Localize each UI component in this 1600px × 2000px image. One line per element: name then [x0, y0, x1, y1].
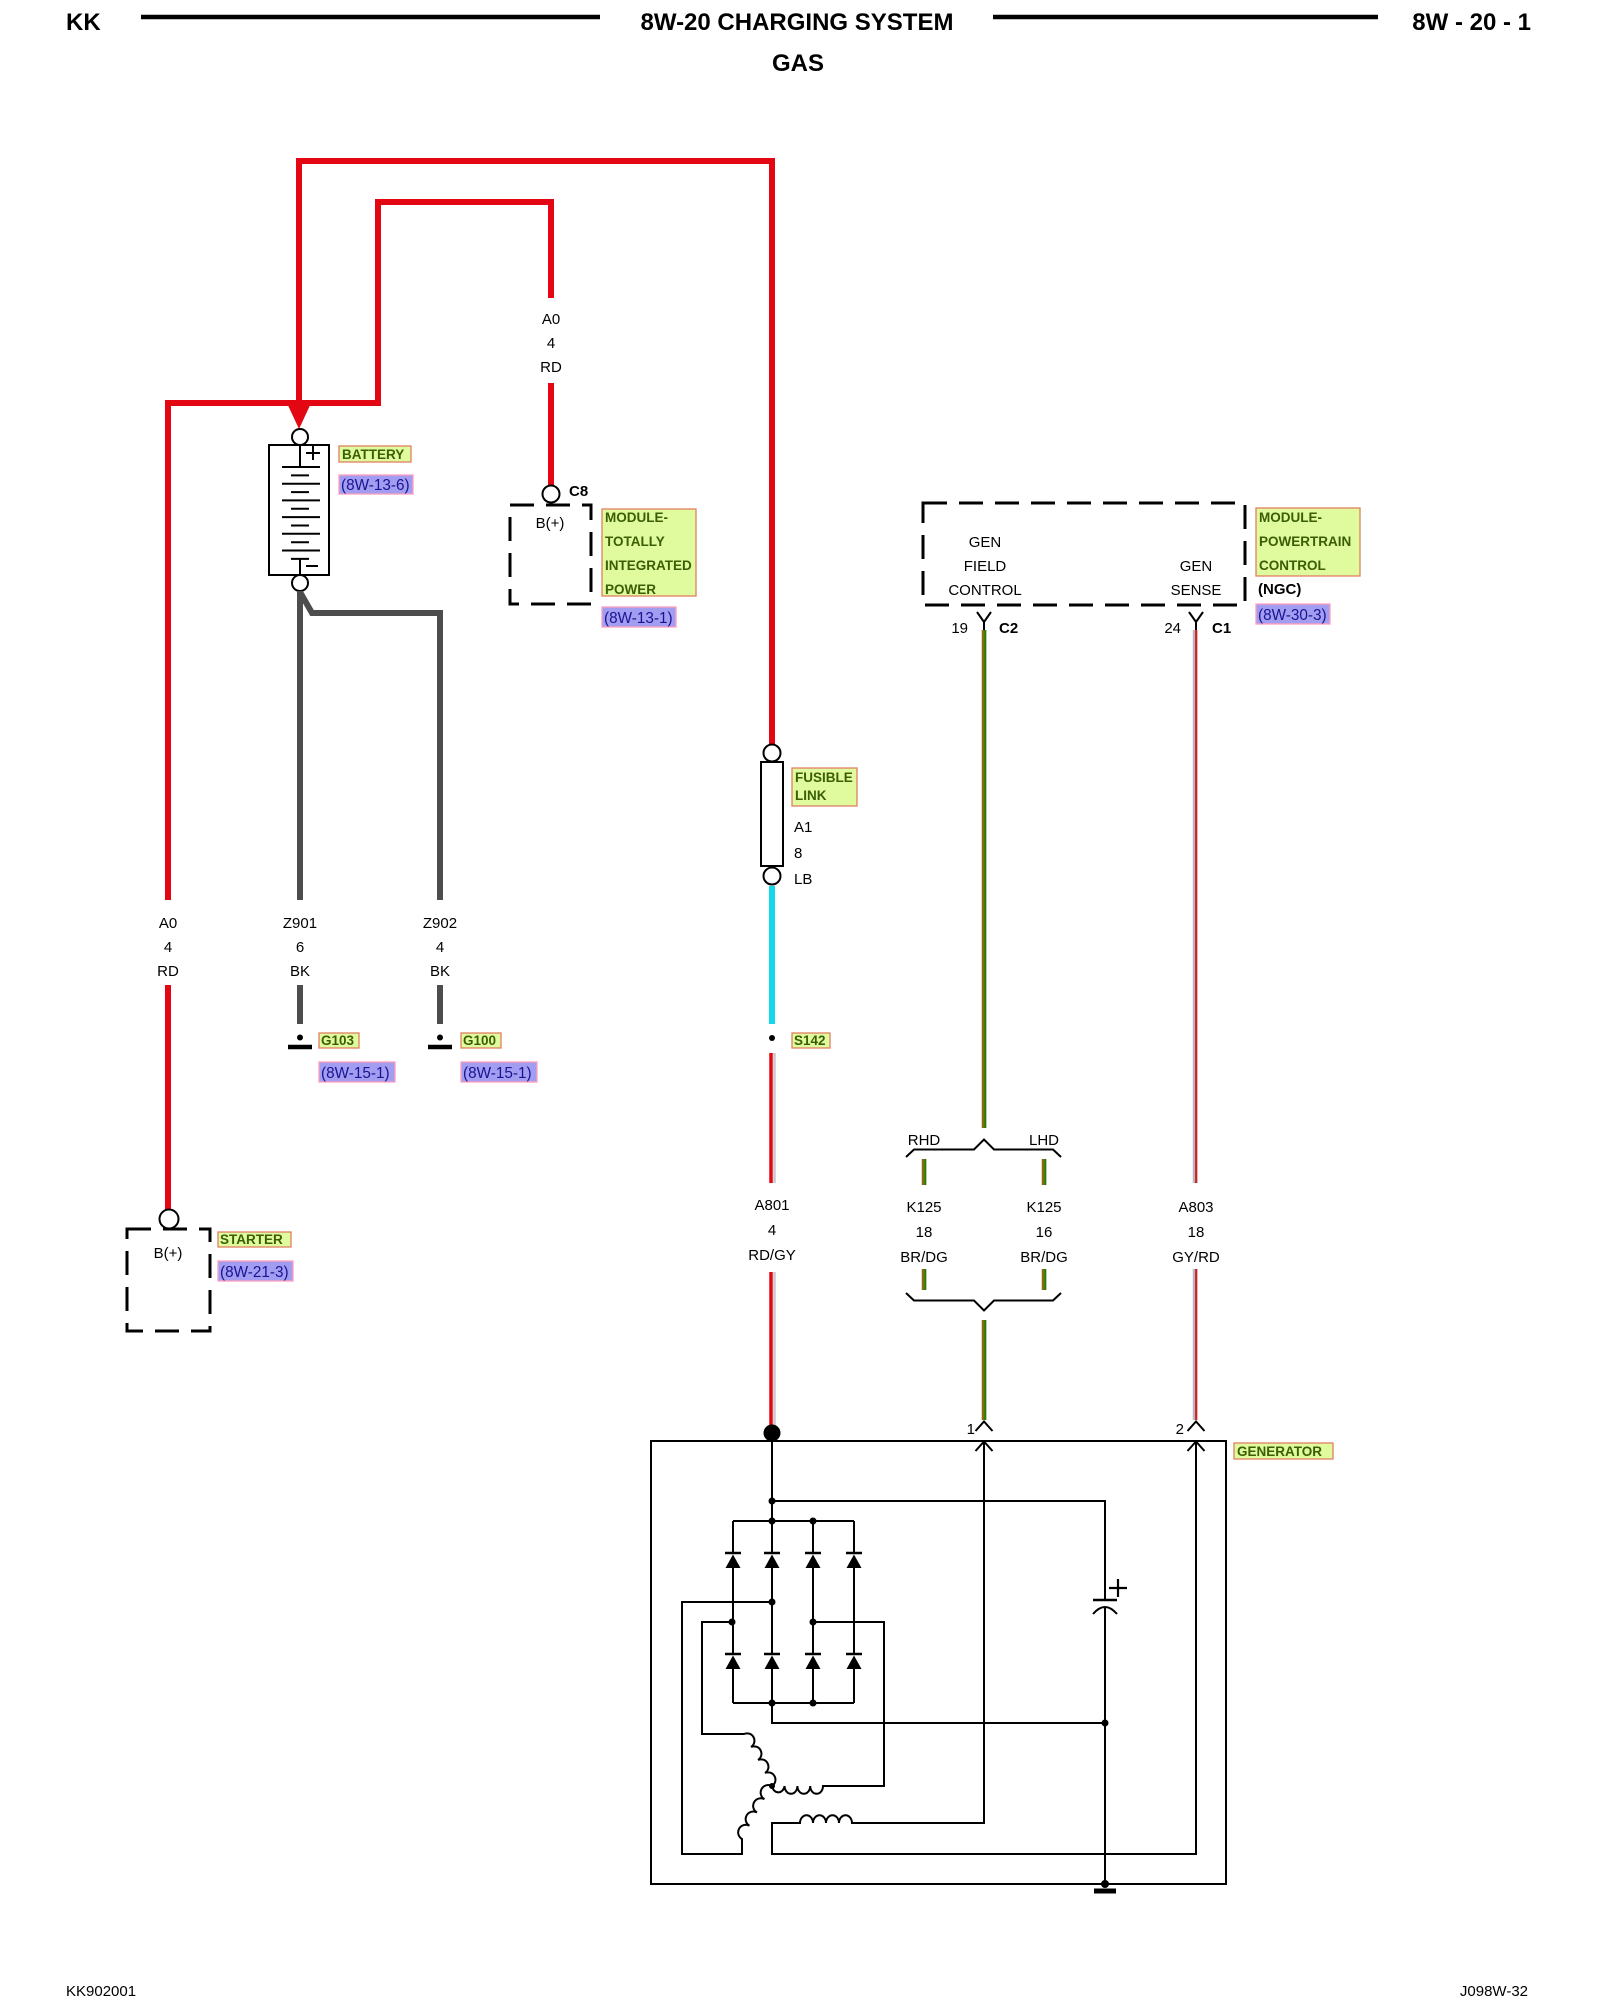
- label (8W-13-1): [602, 607, 676, 627]
- wire B+ vertical into bridge: [771, 1433, 773, 1521]
- svg-text:CONTROL: CONTROL: [948, 582, 1021, 599]
- svg-text:1: 1: [967, 1421, 975, 1438]
- label (8W-15-1) left: [319, 1062, 395, 1082]
- label (8W-30-3): [1256, 604, 1330, 624]
- svg-text:CONTROL: CONTROL: [1259, 558, 1326, 573]
- generator box: [651, 1441, 1226, 1884]
- svg-text:LINK: LINK: [795, 788, 827, 803]
- label MODULE-TOTALLY INTEGRATED POWER: [602, 509, 696, 596]
- node capacitor/rectifier junction: [1102, 1720, 1109, 1727]
- svg-text:4: 4: [164, 939, 172, 956]
- svg-text:(NGC): (NGC): [1258, 581, 1301, 598]
- battery positive terminal circle: [292, 429, 308, 445]
- ground G103 symbol: [297, 1035, 303, 1041]
- starter terminal circle: [160, 1210, 179, 1229]
- arrowhead pin 1 inside box: [976, 1442, 993, 1452]
- svg-text:POWER: POWER: [605, 582, 656, 597]
- svg-text:A0: A0: [159, 915, 177, 932]
- ground G100 symbol: [437, 1035, 443, 1041]
- svg-text:LB: LB: [794, 871, 812, 888]
- svg-text:C1: C1: [1212, 620, 1231, 637]
- starter dashed box: [127, 1229, 210, 1331]
- K125: [900, 630, 1220, 1420]
- BATTERY: [269, 429, 413, 591]
- svg-text:(8W-21-3): (8W-21-3): [220, 1264, 289, 1281]
- diode D8 bottom: [846, 1653, 862, 1656]
- svg-text:K125: K125: [906, 1199, 941, 1216]
- svg-text:GY/RD: GY/RD: [1172, 1249, 1220, 1266]
- header rule right: [993, 15, 1378, 20]
- arrowhead pin 2 inside box: [1188, 1442, 1205, 1452]
- svg-text:GEN: GEN: [1180, 558, 1213, 575]
- diode branch 4 vertical: [853, 1521, 855, 1703]
- stator phase B wire and coil: [772, 1622, 884, 1794]
- svg-text:K125: K125: [1026, 1199, 1061, 1216]
- label MODULE-POWERTRAIN CONTROL: [1256, 508, 1360, 576]
- svg-text:FUSIBLE: FUSIBLE: [795, 770, 853, 785]
- wire A801 RD/GY lower segment: [769, 1272, 773, 1428]
- svg-text:A1: A1: [794, 819, 812, 836]
- label GENERATOR: [1234, 1443, 1333, 1459]
- svg-text:GAS: GAS: [772, 50, 824, 77]
- svg-text:BK: BK: [430, 963, 450, 980]
- diode D3 top: [805, 1552, 821, 1555]
- wire Z902 BK lower: [437, 985, 443, 1024]
- svg-text:G100: G100: [463, 1033, 496, 1048]
- svg-text:6: 6: [296, 939, 304, 956]
- connector C8 circle: [543, 486, 560, 503]
- svg-text:(8W-15-1): (8W-15-1): [463, 1065, 532, 1082]
- diode D6 bottom: [764, 1653, 780, 1656]
- node phase C tap: [769, 1599, 776, 1606]
- svg-text:(8W-15-1): (8W-15-1): [321, 1065, 390, 1082]
- svg-text:8W - 20 - 1: 8W - 20 - 1: [1412, 9, 1531, 36]
- diode D7 bottom: [805, 1653, 821, 1656]
- diode D4 top: [846, 1552, 862, 1555]
- diode branch 1 vertical: [732, 1521, 734, 1703]
- svg-text:J098W-32: J098W-32: [1460, 1983, 1528, 2000]
- svg-text:GEN: GEN: [969, 534, 1002, 551]
- svg-text:POWERTRAIN: POWERTRAIN: [1259, 534, 1351, 549]
- battery negative stub: [299, 559, 301, 575]
- node ground junction: [1101, 1880, 1109, 1888]
- stator phase C wire and coil: [682, 1602, 772, 1854]
- svg-text:A801: A801: [754, 1197, 789, 1214]
- svg-text:4: 4: [436, 939, 444, 956]
- svg-text:(8W-13-6): (8W-13-6): [341, 477, 410, 494]
- diode bridge top rail: [733, 1520, 854, 1522]
- field winding and sense wire: [772, 1442, 1196, 1855]
- diode bridge bottom rail: [733, 1702, 854, 1704]
- wire capacitor to ground rail: [1104, 1607, 1106, 1884]
- label S142: [792, 1033, 830, 1048]
- node phase A tap: [729, 1619, 736, 1626]
- diode D5 bottom: [725, 1653, 741, 1656]
- battery positive stub: [299, 445, 301, 467]
- svg-text:BATTERY: BATTERY: [342, 447, 404, 462]
- label BATTERY: [339, 446, 411, 462]
- module TIPM dashed box: [510, 505, 591, 604]
- svg-text:LHD: LHD: [1029, 1132, 1059, 1149]
- svg-text:FIELD: FIELD: [964, 558, 1007, 575]
- svg-text:(8W-13-1): (8W-13-1): [604, 610, 673, 627]
- GROUNDS: [283, 591, 537, 1082]
- svg-text:RHD: RHD: [908, 1132, 941, 1149]
- wire K125 RHD stub upper: [922, 1159, 924, 1185]
- stator phase A wire and coil: [702, 1622, 775, 1786]
- wire A801 RD/GY upper segment: [769, 1053, 773, 1183]
- diode D2 top: [764, 1552, 780, 1555]
- diode branch 3 vertical: [812, 1521, 814, 1703]
- wire A0 RD to starter lower segment: [165, 985, 171, 1210]
- svg-text:A0: A0: [542, 311, 560, 328]
- node B+ tap: [769, 1498, 776, 1505]
- node A801 junction at generator B+: [764, 1425, 781, 1442]
- wire K125 RHD stub lower: [922, 1269, 924, 1290]
- node bottom rail branch 2: [769, 1700, 776, 1707]
- wire A1 LB cyan: [769, 886, 775, 1024]
- node phase B tap: [810, 1619, 817, 1626]
- node rail branch 3: [810, 1518, 817, 1525]
- wire Z902 BK upper: [300, 592, 440, 900]
- svg-text:BR/DG: BR/DG: [1020, 1249, 1068, 1266]
- REDWIRES: [157, 161, 772, 1210]
- svg-text:RD: RD: [540, 359, 562, 376]
- svg-text:C8: C8: [569, 483, 588, 500]
- module PCM dashed box: [923, 503, 1245, 605]
- svg-text:TOTALLY: TOTALLY: [605, 534, 665, 549]
- svg-text:16: 16: [1036, 1224, 1053, 1241]
- svg-text:RD/GY: RD/GY: [748, 1247, 796, 1264]
- battery negative terminal circle: [292, 575, 308, 591]
- svg-text:KK: KK: [66, 9, 101, 36]
- wire K125 LHD stub upper: [1042, 1159, 1044, 1185]
- node stator star point: [769, 1783, 775, 1789]
- fusible link top terminal circle: [764, 745, 781, 762]
- svg-text:RD: RD: [157, 963, 179, 980]
- svg-text:MODULE-: MODULE-: [605, 510, 668, 525]
- STARTER: [127, 1210, 293, 1332]
- svg-text:18: 18: [1188, 1224, 1205, 1241]
- fusible link body: [761, 762, 783, 866]
- label STARTER: [218, 1232, 291, 1247]
- label G100: [461, 1033, 501, 1048]
- fusible link bottom terminal circle: [764, 868, 781, 885]
- svg-text:S142: S142: [794, 1033, 826, 1048]
- splice S142 node: [769, 1035, 775, 1041]
- svg-text:C2: C2: [999, 620, 1018, 637]
- svg-text:MODULE-: MODULE-: [1259, 510, 1322, 525]
- svg-text:4: 4: [547, 335, 555, 352]
- wire A0 RD battery feed top run: [299, 161, 772, 747]
- svg-text:B(+): B(+): [536, 515, 565, 532]
- svg-text:Z901: Z901: [283, 915, 317, 932]
- svg-text:INTEGRATED: INTEGRATED: [605, 558, 692, 573]
- wire A0 RD starter branch upper: [168, 202, 551, 900]
- capacitor plus sign: [1109, 1579, 1127, 1597]
- svg-text:Z902: Z902: [423, 915, 457, 932]
- svg-text:4: 4: [768, 1222, 776, 1239]
- label (8W-15-1) right: [461, 1062, 537, 1082]
- brace merge RHD/LHD: [906, 1293, 1061, 1311]
- svg-text:G103: G103: [321, 1033, 355, 1048]
- node bottom rail branch 3: [810, 1700, 817, 1707]
- diode branch 2 vertical: [771, 1521, 773, 1703]
- label (8W-21-3): [218, 1261, 293, 1281]
- label (8W-13-6): [339, 475, 413, 494]
- label G103: [319, 1033, 359, 1048]
- svg-text:19: 19: [951, 620, 968, 637]
- svg-text:BR/DG: BR/DG: [900, 1249, 948, 1266]
- battery body box: [269, 445, 329, 575]
- battery plus sign: [306, 446, 320, 460]
- wire K125 BR/DG from C2: [982, 630, 984, 1128]
- TIPM: [510, 483, 696, 627]
- battery cell plates: [282, 467, 320, 559]
- svg-text:SENSE: SENSE: [1171, 582, 1222, 599]
- svg-text:B(+): B(+): [154, 1245, 183, 1262]
- wire A0 RD to C8 lower segment: [548, 383, 554, 486]
- capacitor C plus plate: [1093, 1599, 1117, 1602]
- wire Z901 BK upper: [297, 591, 303, 900]
- wire Z901 BK lower: [297, 985, 303, 1024]
- svg-text:GENERATOR: GENERATOR: [1237, 1444, 1322, 1459]
- wire A803 GY/RD from C1 upper: [1193, 630, 1195, 1183]
- svg-text:2: 2: [1176, 1421, 1184, 1438]
- svg-text:A803: A803: [1178, 1199, 1213, 1216]
- svg-text:24: 24: [1164, 620, 1181, 637]
- brace split RHD/LHD: [906, 1140, 1061, 1158]
- diode D1 top: [725, 1552, 741, 1555]
- capacitor C curved plate: [1093, 1607, 1117, 1614]
- FUSELINK: [748, 745, 857, 1429]
- svg-text:(8W-30-3): (8W-30-3): [1258, 607, 1327, 624]
- GENERATOR: [651, 1421, 1333, 1891]
- svg-text:KK902001: KK902001: [66, 1983, 136, 2000]
- label FUSIBLE LINK: [792, 768, 857, 806]
- node rail branch 2: [769, 1518, 776, 1525]
- header rule left: [141, 15, 600, 20]
- wire A803 GY/RD lower: [1193, 1269, 1195, 1420]
- FOOTER: [66, 1983, 1528, 2000]
- junction arrow into battery positive: [286, 401, 312, 429]
- battery minus sign: [306, 565, 318, 567]
- wire K125 merged to generator pin 1: [982, 1320, 984, 1420]
- svg-text:8: 8: [794, 845, 802, 862]
- HEADER: [66, 9, 1531, 77]
- wire K125 LHD stub lower: [1042, 1269, 1044, 1290]
- PCM: [923, 503, 1360, 637]
- wire B+ to capacitor top: [772, 1501, 1105, 1599]
- svg-text:8W-20 CHARGING SYSTEM: 8W-20 CHARGING SYSTEM: [641, 9, 954, 36]
- wire bottom rail to capacitor ground line: [772, 1703, 1105, 1723]
- svg-text:STARTER: STARTER: [220, 1232, 283, 1247]
- svg-text:BK: BK: [290, 963, 310, 980]
- svg-text:18: 18: [916, 1224, 933, 1241]
- ground bar inside generator: [1094, 1889, 1116, 1894]
